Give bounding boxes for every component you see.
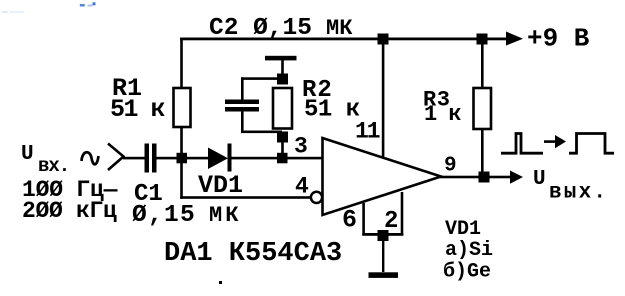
waveform arrow [544,135,566,148]
svg-text:9: 9 [444,155,457,178]
ac source symbol ~ [82,152,99,164]
wire input node down to pin 4 [180,163,311,199]
node R2 top junction [277,74,288,85]
node ground junction [378,230,389,241]
wire pin 2 [401,192,404,236]
op-amp comparator DA1 triangle [323,138,442,215]
svg-text:вх.: вх. [38,155,69,177]
svg-text:U: U [533,168,546,191]
svg-text:2ØØ кГц: 2ØØ кГц [22,198,117,224]
capacitor C2 [225,77,282,133]
wire R3 top lead [481,45,484,89]
svg-text:U: U [21,143,34,166]
waveform narrow pulse [501,134,543,154]
text U вых. [533,168,608,205]
svg-text:3: 3 [294,134,308,160]
wire output pin 9 [440,176,479,179]
inversion bubble pin 4 [311,192,322,203]
svg-text:Ø,15: Ø,15 [132,202,196,229]
svg-text:C2 Ø,15: C2 Ø,15 [209,15,312,42]
svg-text:+9 В: +9 В [527,24,590,54]
resistor R2 [273,88,292,129]
svg-text:вых.: вых. [549,182,608,205]
svg-text:6: 6 [342,206,357,235]
wire down to ground [382,241,384,272]
node pin 3 junction [277,153,288,164]
node junction rail / pin 11 [378,34,389,45]
svg-text:11: 11 [355,119,380,145]
waveform wide pulse [569,134,614,154]
capacitor C1 [145,144,157,173]
svg-text:DA1 К554СА3: DA1 К554СА3 [164,239,342,269]
ground [369,272,399,278]
text U вх. [21,143,69,177]
svg-text:51 к: 51 к [304,97,360,124]
wire pin 6 [362,203,365,236]
svg-text:51 к: 51 к [110,95,166,124]
speck artifact [219,281,222,284]
svg-text:МК: МК [326,16,353,41]
resistor R1 [174,88,191,127]
wire R1 bottom lead [180,127,183,155]
power arrow +9 В [506,32,523,46]
wire +9V rail [180,38,512,41]
node junction rail / R3 [477,34,488,45]
wire pins 6-2 bottom [362,233,403,236]
svg-text:1 к: 1 к [424,102,461,127]
svg-text:а)Si: а)Si [445,239,493,262]
svg-text:VD1: VD1 [445,218,481,241]
wire diode to pin3 node [232,157,278,160]
input chevron [108,144,124,171]
wire pin 11 [382,45,385,157]
svg-text:МК: МК [209,203,241,228]
diode VD1 [208,144,232,172]
scan artifact blue dashes [2,2,96,13]
svg-text:VD1: VD1 [198,171,243,200]
svg-text:4: 4 [295,174,309,200]
wire C1 to input node [157,157,179,160]
wire input node to diode [187,157,209,160]
wire pin3 node up to R2 [281,142,284,154]
output arrow [510,171,523,184]
wire pin3 node to comparator [288,157,324,160]
wire R1 top lead [180,39,183,88]
node input junction [177,153,188,164]
wire output node to arrow [490,176,512,179]
node R2 bottom junction [277,132,288,143]
node output junction [479,172,490,183]
resistor R3 [474,88,492,129]
ground (common) above R2 [265,56,297,74]
wire chevron to C1 [123,157,145,160]
svg-text:б)Ge: б)Ge [443,261,491,284]
wire R3 bottom lead [481,129,484,172]
